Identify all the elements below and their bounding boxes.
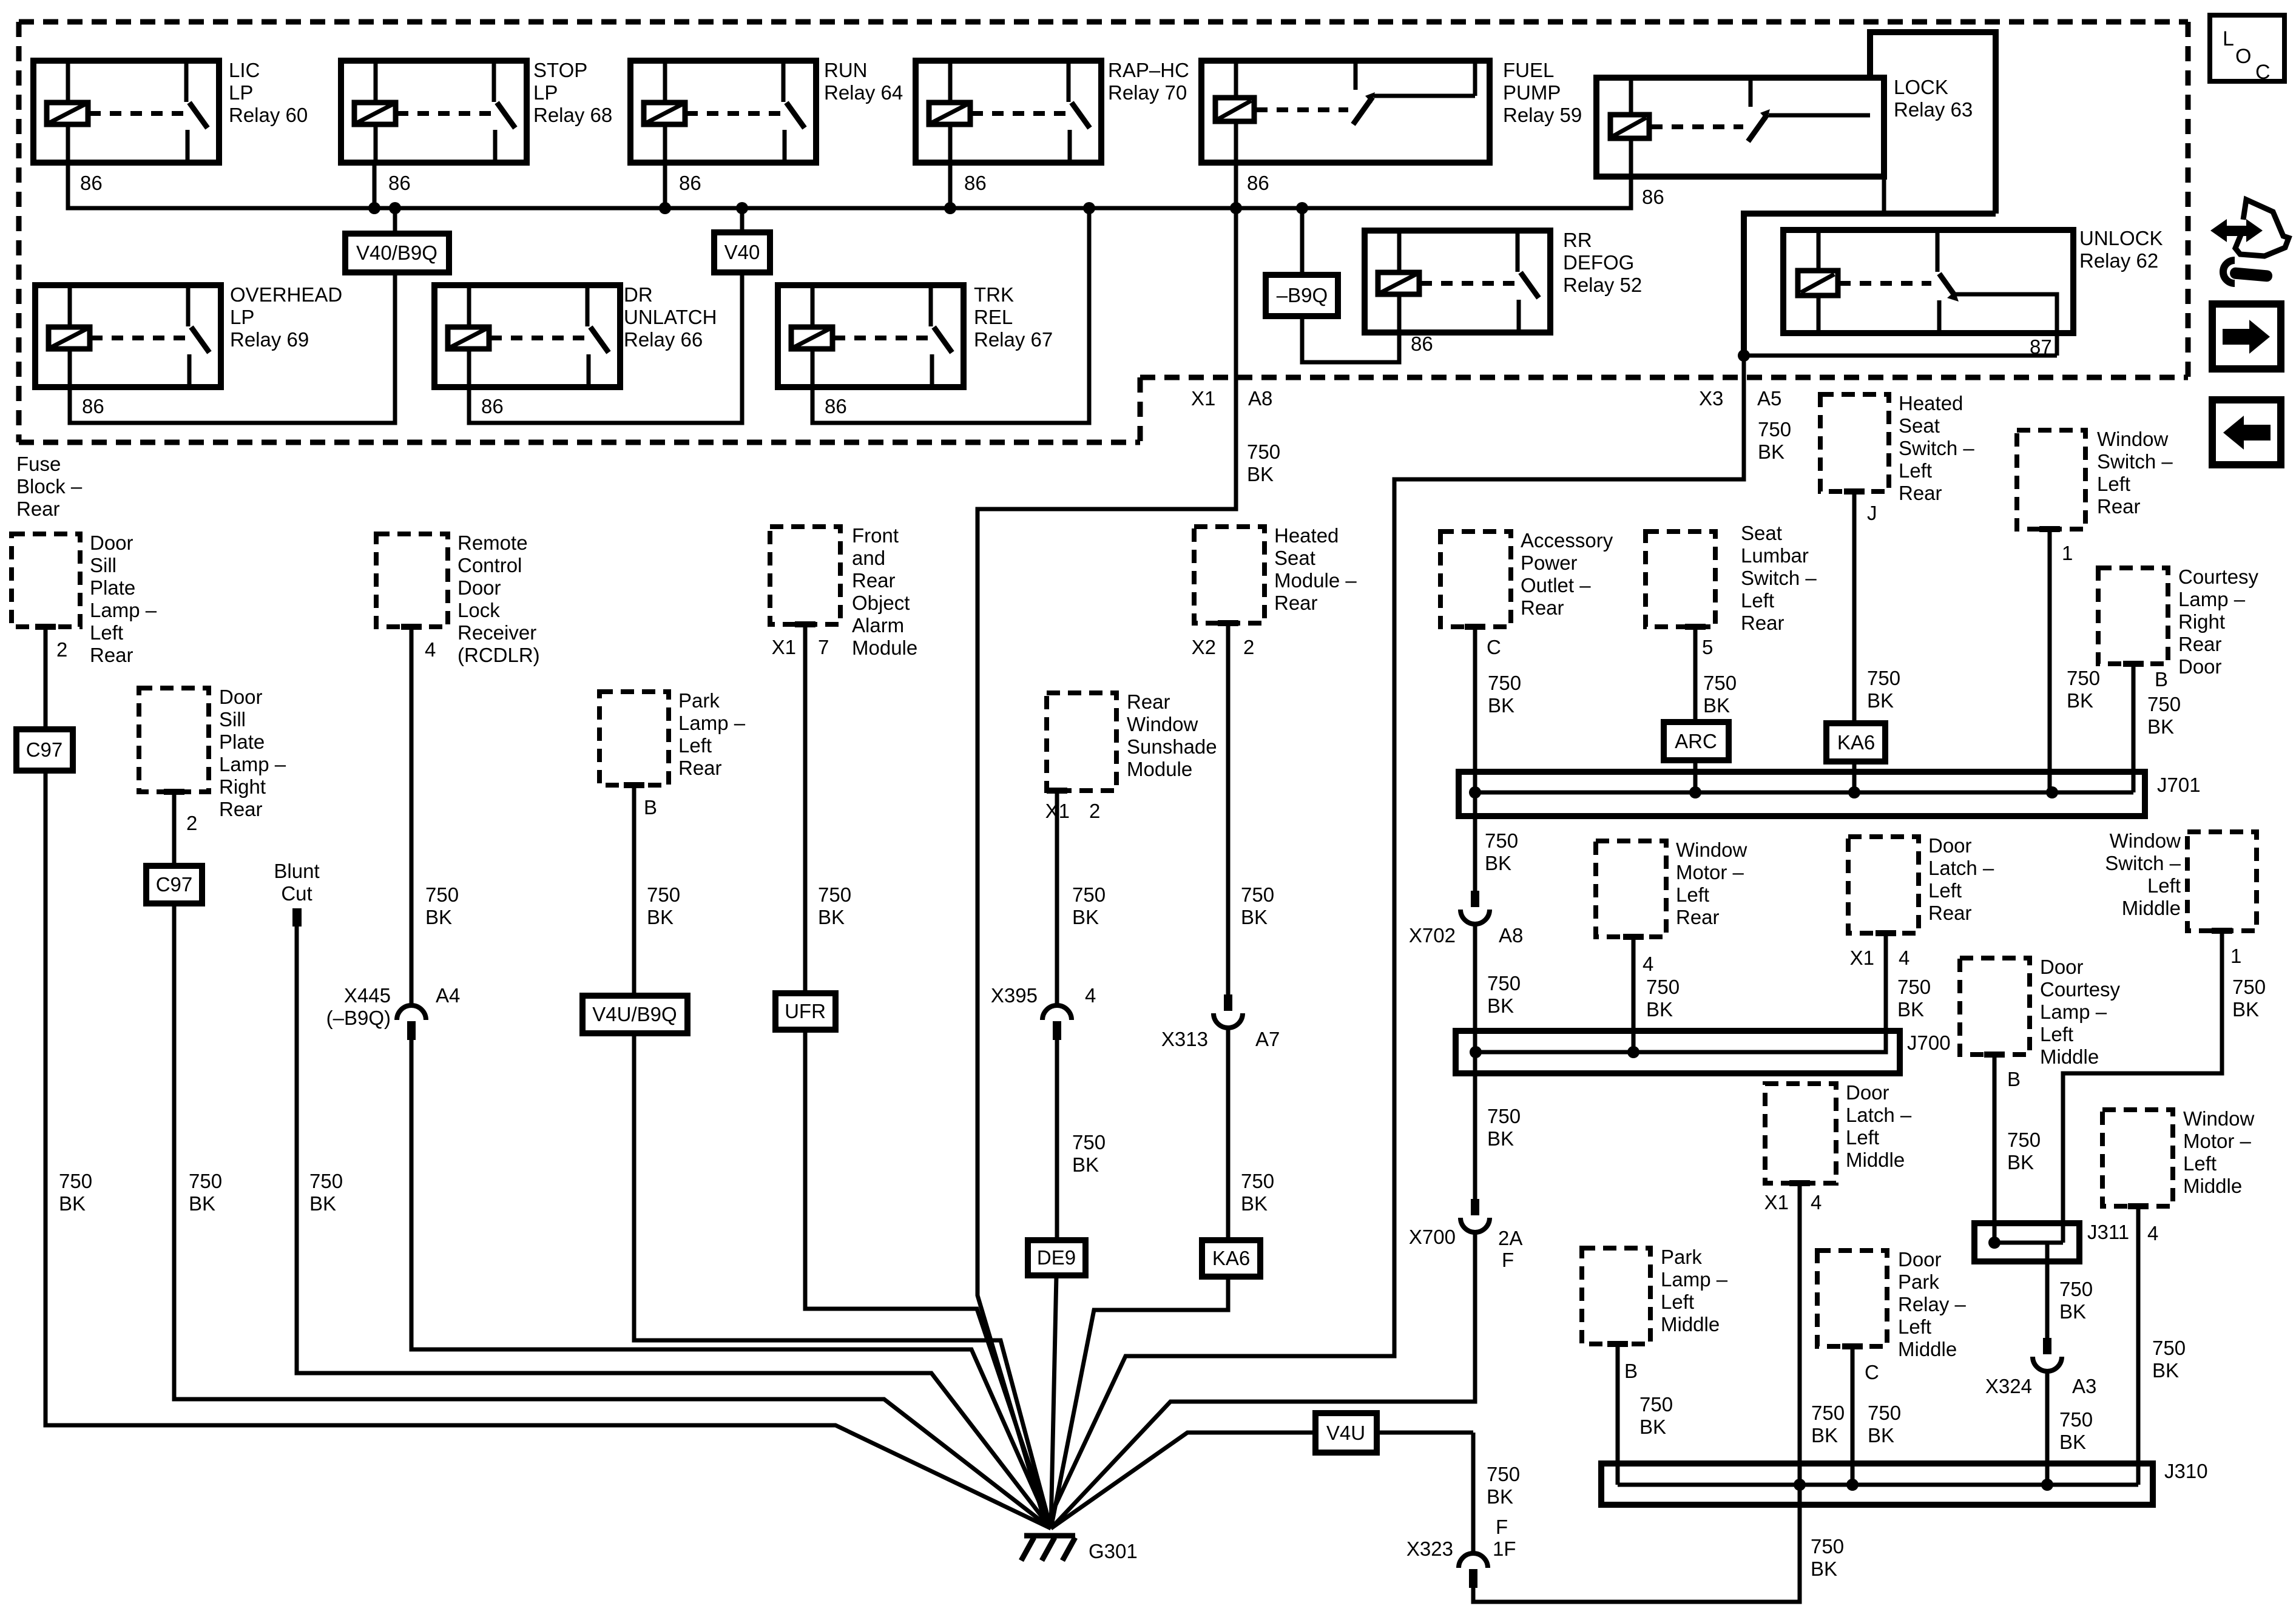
wire V4U to X323: [1471, 1433, 1476, 1554]
svg-text:Switch –: Switch –: [2097, 450, 2173, 473]
junction J310 X324: [2041, 1479, 2053, 1491]
svg-text:750: 750: [2067, 667, 2100, 689]
svg-text:OVERHEAD: OVERHEAD: [230, 283, 342, 306]
svg-text:B: B: [1624, 1360, 1638, 1382]
svg-text:V4U: V4U: [1326, 1422, 1365, 1444]
svg-text:750: 750: [2147, 693, 2181, 715]
svg-text:C: C: [1487, 636, 1501, 658]
svg-text:X1: X1: [772, 636, 796, 658]
svg-text:J310: J310: [2164, 1460, 2208, 1482]
wire park lamp LM 750 BK to J310: [1607, 1341, 1628, 1347]
svg-text:BK: BK: [818, 906, 845, 928]
svg-text:1F: 1F: [1493, 1538, 1516, 1560]
svg-text:BK: BK: [2152, 1359, 2179, 1382]
svg-text:Left: Left: [1899, 459, 1932, 482]
svg-text:750: 750: [59, 1170, 92, 1192]
svg-text:Blunt: Blunt: [274, 860, 319, 882]
svg-text:86: 86: [80, 172, 103, 194]
svg-text:C97: C97: [156, 873, 193, 896]
net KA6: [1826, 723, 1885, 761]
svg-text:Door: Door: [219, 686, 263, 708]
svg-text:750: 750: [1247, 441, 1280, 463]
svg-text:Outlet –: Outlet –: [1521, 574, 1591, 596]
svg-text:Left: Left: [2183, 1152, 2217, 1175]
svg-text:BK: BK: [425, 906, 452, 928]
junction J311 courtesy: [1988, 1237, 2001, 1249]
svg-text:F: F: [1496, 1516, 1508, 1538]
svg-text:Left: Left: [1898, 1315, 1931, 1338]
svg-text:Rear: Rear: [16, 498, 60, 520]
wire -B9Q to RR DEFOG 86: [1302, 316, 1399, 362]
svg-text:Object: Object: [852, 592, 910, 614]
svg-text:Lamp –: Lamp –: [219, 753, 286, 775]
wire X324 750 BK to J310: [2045, 1371, 2050, 1485]
net V40: [714, 232, 770, 272]
svg-text:750: 750: [1646, 976, 1680, 998]
svg-text:Control: Control: [458, 554, 522, 576]
svg-text:BK: BK: [2059, 1431, 2086, 1453]
svg-text:Window: Window: [2110, 829, 2181, 852]
svg-text:BK: BK: [1867, 689, 1894, 712]
svg-text:750: 750: [1703, 672, 1737, 694]
svg-text:86: 86: [388, 172, 411, 194]
svg-text:Switch –: Switch –: [1899, 437, 1974, 459]
svg-text:750: 750: [1488, 672, 1521, 694]
svg-text:J701: J701: [2157, 774, 2201, 796]
junction J700 accessory: [1470, 1046, 1482, 1058]
component Heated Seat Module - Rear: [1194, 527, 1264, 623]
net UFR: [775, 993, 836, 1030]
svg-text:750: 750: [189, 1170, 222, 1192]
wire UFR to G301: [805, 1030, 1051, 1528]
svg-text:4: 4: [1899, 947, 1909, 969]
svg-text:Courtesy: Courtesy: [2040, 978, 2121, 1001]
svg-text:Relay 60: Relay 60: [229, 104, 308, 126]
svg-text:X1: X1: [1191, 387, 1215, 410]
svg-text:750: 750: [1241, 1170, 1274, 1192]
svg-text:Cut: Cut: [281, 882, 312, 905]
wire V40 to DR UNLATCH 86: [469, 272, 742, 423]
svg-text:750: 750: [1487, 1105, 1521, 1127]
svg-text:Park: Park: [1898, 1271, 1939, 1293]
connector X700 2A F: [1471, 1199, 1479, 1215]
svg-text:UNLOCK: UNLOCK: [2079, 227, 2163, 249]
svg-text:STOP: STOP: [533, 59, 587, 81]
svg-text:–B9Q: –B9Q: [1277, 284, 1328, 306]
svg-text:750: 750: [2059, 1408, 2093, 1431]
svg-text:X395: X395: [991, 984, 1038, 1007]
wire hsm lower 750 BK: [1226, 1028, 1231, 1240]
svg-text:BK: BK: [647, 906, 674, 928]
svg-text:Door: Door: [1898, 1248, 1942, 1271]
svg-text:Heated: Heated: [1274, 524, 1339, 547]
wire X1-A8 750 BK: [977, 208, 1236, 1525]
component Door Latch - Left Middle: [1765, 1084, 1836, 1183]
wire V4U to G301: [1051, 1433, 1473, 1528]
svg-text:FUEL: FUEL: [1503, 59, 1554, 81]
svg-text:BK: BK: [1072, 1153, 1099, 1176]
svg-text:Front: Front: [852, 524, 899, 547]
svg-text:Left: Left: [2097, 473, 2130, 495]
svg-text:V40/B9Q: V40/B9Q: [356, 241, 437, 264]
svg-text:Middle: Middle: [2122, 897, 2181, 919]
wire DE9 to G301: [1051, 1275, 1056, 1528]
wire window motor LR 750 BK to J700: [1623, 934, 1644, 940]
svg-text:Sunshade: Sunshade: [1127, 735, 1217, 758]
svg-text:Door: Door: [90, 532, 133, 554]
wire KA6 to J701: [1852, 761, 1857, 792]
svg-text:Left: Left: [678, 734, 712, 757]
svg-text:750: 750: [425, 883, 459, 906]
svg-text:DE9: DE9: [1037, 1246, 1076, 1269]
relay RUN Relay 64: [630, 61, 816, 163]
wire bus drop to TRK REL 86: [1083, 202, 1095, 214]
svg-text:Relay 68: Relay 68: [533, 104, 612, 126]
svg-text:750: 750: [1897, 976, 1931, 998]
svg-text:BK: BK: [1646, 998, 1673, 1021]
wire heated seat switch 750 BK: [1844, 488, 1865, 495]
svg-text:A8: A8: [1248, 387, 1272, 410]
component Park Lamp - Left Middle: [1582, 1248, 1650, 1344]
svg-text:750: 750: [1241, 883, 1274, 906]
svg-text:Relay 70: Relay 70: [1108, 81, 1187, 104]
wire blunt cut 750 BK to G301: [297, 927, 1051, 1528]
svg-text:B: B: [2155, 668, 2168, 690]
svg-text:750: 750: [1811, 1402, 1845, 1424]
svg-text:LIC: LIC: [229, 59, 260, 81]
relay RAP-HC Relay 70: [916, 61, 1101, 163]
wire window motor LM 750 BK to J310: [2128, 1203, 2149, 1209]
svg-text:DR: DR: [624, 283, 653, 306]
svg-text:KA6: KA6: [1837, 731, 1875, 754]
svg-text:Plate: Plate: [219, 731, 265, 753]
wire KA6 to G301: [1051, 1277, 1228, 1528]
svg-text:J700: J700: [1907, 1031, 1951, 1054]
component Seat Lumbar Switch - Left Rear: [1646, 532, 1715, 627]
fuse block rear dashed border: [19, 22, 2188, 442]
svg-text:BK: BK: [1072, 906, 1099, 928]
svg-text:750: 750: [1758, 418, 1791, 441]
component Courtesy Lamp - Right Rear Door: [2098, 568, 2168, 664]
component Door Park Relay - Left Middle: [1817, 1251, 1887, 1346]
wire lumbar 750 BK: [1685, 624, 1706, 630]
svg-text:A4: A4: [436, 984, 460, 1007]
component Remote Control Door Lock Receiver RCDLR: [376, 534, 448, 627]
relay LIC LP Relay 60: [33, 61, 219, 163]
bus J701: [1459, 772, 2145, 816]
svg-text:Relay 63: Relay 63: [1894, 98, 1973, 121]
svg-text:BK: BK: [1487, 1127, 1514, 1150]
svg-text:Module: Module: [1127, 758, 1192, 780]
wire UNLOCK 87 output: [1955, 294, 2057, 356]
svg-text:Seat: Seat: [1899, 414, 1940, 437]
svg-text:X445: X445: [344, 984, 391, 1007]
svg-text:A3: A3: [2072, 1375, 2096, 1397]
svg-text:BK: BK: [2067, 689, 2093, 712]
svg-text:Middle: Middle: [1661, 1313, 1720, 1335]
svg-text:Window: Window: [2183, 1107, 2255, 1130]
svg-text:UNLATCH: UNLATCH: [624, 306, 717, 328]
svg-text:F: F: [1502, 1249, 1514, 1271]
svg-text:KA6: KA6: [1212, 1247, 1250, 1269]
wire RAP-HC 86 pin: [948, 163, 953, 208]
svg-text:750: 750: [1639, 1393, 1673, 1416]
ground G301: [1021, 1536, 1075, 1561]
svg-text:X324: X324: [1985, 1375, 2032, 1397]
svg-text:86: 86: [964, 172, 987, 194]
svg-text:Sill: Sill: [90, 554, 116, 576]
svg-text:LP: LP: [230, 306, 254, 328]
svg-text:REL: REL: [974, 306, 1013, 328]
svg-text:A5: A5: [1757, 387, 1781, 410]
svg-text:2A: 2A: [1498, 1227, 1522, 1249]
svg-text:Rear: Rear: [1741, 612, 1784, 634]
svg-text:X2: X2: [1192, 636, 1216, 658]
svg-text:750: 750: [1072, 1131, 1106, 1153]
wire window switch LR 750 BK: [2039, 526, 2060, 532]
svg-text:BK: BK: [59, 1192, 86, 1215]
svg-text:Door: Door: [2040, 956, 2084, 978]
svg-text:Rear: Rear: [1521, 596, 1564, 619]
svg-text:5: 5: [1702, 636, 1713, 658]
svg-text:Left: Left: [2040, 1023, 2073, 1045]
svg-text:2: 2: [1089, 800, 1100, 822]
svg-text:Middle: Middle: [1898, 1338, 1957, 1360]
svg-text:BK: BK: [1868, 1424, 1894, 1447]
svg-text:Park: Park: [678, 689, 720, 712]
wire park lamp LR 750 BK: [624, 782, 644, 788]
wire sunshade 750 BK upper: [1047, 788, 1067, 794]
svg-text:X700: X700: [1409, 1226, 1456, 1248]
svg-text:BK: BK: [2059, 1300, 2086, 1323]
svg-text:Relay 59: Relay 59: [1503, 104, 1582, 126]
junction X3 wire: [1738, 349, 1750, 362]
svg-text:Rear: Rear: [678, 757, 722, 779]
component Park Lamp - Left Rear: [599, 692, 669, 785]
svg-text:B: B: [2007, 1068, 2021, 1090]
svg-text:Motor –: Motor –: [1676, 861, 1744, 883]
svg-text:Power: Power: [1521, 552, 1578, 574]
svg-text:BK: BK: [1639, 1416, 1666, 1438]
svg-text:4: 4: [1811, 1191, 1822, 1214]
svg-text:750: 750: [1867, 667, 1900, 689]
svg-text:Courtesy: Courtesy: [2178, 565, 2259, 588]
svg-text:Left: Left: [1661, 1291, 1694, 1313]
svg-text:Lamp –: Lamp –: [90, 599, 157, 621]
svg-text:V4U/B9Q: V4U/B9Q: [592, 1003, 677, 1025]
svg-text:BK: BK: [1247, 463, 1274, 485]
svg-text:Rear: Rear: [1899, 482, 1942, 504]
component Door Sill Plate Lamp - Left Rear: [12, 534, 80, 627]
wire heated seat module 750 BK: [1218, 620, 1238, 626]
svg-text:BK: BK: [1758, 441, 1784, 463]
wire X700 750 BK to G301: [1051, 1232, 1475, 1528]
svg-text:Middle: Middle: [1846, 1149, 1905, 1171]
svg-text:1: 1: [2230, 945, 2241, 967]
svg-text:C: C: [2255, 61, 2271, 84]
wire -B9Q drop: [1296, 202, 1308, 214]
svg-text:Lumbar: Lumbar: [1741, 544, 1809, 567]
junction J310 door park relay: [1846, 1479, 1859, 1491]
wire 87 bus to X3-A5: [1744, 354, 2057, 358]
svg-text:LP: LP: [533, 81, 558, 104]
svg-text:J311: J311: [2087, 1221, 2129, 1243]
svg-text:BK: BK: [1811, 1424, 1838, 1447]
relay RR DEFOG Relay 52: [1365, 231, 1550, 333]
svg-text:C: C: [1865, 1361, 1879, 1383]
component Window Switch - Left Middle: [2187, 832, 2257, 931]
net KA6 lower: [1202, 1240, 1260, 1277]
svg-text:1: 1: [2062, 542, 2073, 564]
legend back arrow box: [2212, 400, 2281, 465]
connector X702 A8: [1471, 891, 1479, 907]
net V4U: [1315, 1413, 1377, 1453]
wire window switch LM 750 BK to J311: [2212, 928, 2232, 934]
component Window Motor - Left Middle: [2102, 1110, 2173, 1206]
svg-text:Motor –: Motor –: [2183, 1130, 2252, 1152]
svg-text:A7: A7: [1255, 1028, 1280, 1050]
svg-text:750: 750: [2232, 976, 2266, 998]
svg-text:RR: RR: [1563, 229, 1592, 251]
svg-text:750: 750: [647, 883, 680, 906]
junction J700 window motor: [1627, 1046, 1639, 1058]
bus J311: [1974, 1223, 2079, 1261]
wire door latch LR 750 BK to J700: [1876, 930, 1896, 936]
svg-text:4: 4: [425, 638, 436, 661]
svg-text:86: 86: [82, 395, 104, 417]
svg-text:BK: BK: [2147, 715, 2174, 738]
relay UNLOCK Relay 62: [1783, 230, 2073, 333]
svg-text:Module –: Module –: [1274, 569, 1357, 592]
svg-text:Window: Window: [1676, 839, 1747, 861]
svg-text:2: 2: [1243, 636, 1254, 658]
wire J311 to X324: [2045, 1243, 2050, 1338]
connector X324 A3: [2043, 1338, 2051, 1354]
svg-text:Switch –: Switch –: [1741, 567, 1817, 589]
junction J701 window switch: [2046, 786, 2058, 798]
svg-text:B: B: [644, 796, 657, 819]
wire V40 drop: [736, 202, 748, 214]
svg-text:Seat: Seat: [1741, 522, 1782, 544]
wire STOP 86 pin: [373, 163, 377, 208]
wire 86 bus: [68, 163, 1631, 208]
wire accessory 750 BK: [1465, 624, 1485, 630]
svg-text:X313: X313: [1161, 1028, 1208, 1050]
wire door sill RR to C97: [164, 789, 184, 795]
svg-text:Lamp –: Lamp –: [2040, 1001, 2107, 1023]
wire FUEL PUMP 86 pin: [1234, 163, 1238, 208]
svg-text:Door: Door: [458, 576, 501, 599]
svg-text:Relay 66: Relay 66: [624, 328, 703, 351]
svg-text:X1: X1: [1850, 947, 1874, 969]
wire door sill LR to C97: [35, 624, 56, 630]
svg-text:L: L: [2223, 27, 2234, 50]
svg-text:BK: BK: [1487, 1485, 1513, 1508]
svg-text:86: 86: [1247, 172, 1269, 194]
svg-text:UFR: UFR: [785, 1000, 826, 1022]
svg-text:BK: BK: [1485, 852, 1511, 874]
svg-text:750: 750: [818, 883, 851, 906]
svg-text:Module: Module: [852, 636, 917, 659]
svg-text:BK: BK: [1241, 906, 1268, 928]
svg-text:Heated: Heated: [1899, 392, 1963, 414]
svg-text:750: 750: [309, 1170, 343, 1192]
svg-text:750: 750: [2007, 1129, 2041, 1151]
net V4U/B9Q: [582, 996, 687, 1033]
junction J310 door latch: [1794, 1479, 1806, 1491]
svg-text:Lamp –: Lamp –: [2178, 588, 2246, 610]
svg-text:Relay 64: Relay 64: [824, 81, 903, 104]
svg-text:Lamp –: Lamp –: [678, 712, 746, 734]
wire door latch LM to J310 and X323 line: [1789, 1180, 1810, 1186]
wire LOCK relay 87 loop: [1744, 32, 1996, 353]
relay OVERHEAD LP Relay 69: [35, 285, 221, 387]
wire V4U/B9Q to G301: [634, 1033, 1051, 1528]
svg-text:BK: BK: [1241, 1192, 1268, 1215]
svg-text:X323: X323: [1406, 1538, 1453, 1560]
component Window Motor - Left Rear: [1596, 841, 1666, 937]
svg-text:BK: BK: [309, 1192, 336, 1215]
svg-text:Left: Left: [1741, 589, 1774, 612]
svg-text:7: 7: [818, 636, 829, 658]
net -B9Q: [1266, 275, 1338, 316]
svg-text:X3: X3: [1699, 387, 1723, 410]
svg-text:BK: BK: [1811, 1558, 1837, 1580]
svg-text:750: 750: [1487, 1463, 1520, 1485]
svg-text:Door: Door: [1928, 834, 1972, 857]
connector X313 A7: [1224, 994, 1232, 1011]
component Door Latch - Left Rear: [1848, 837, 1919, 933]
net V40/B9Q: [345, 234, 449, 272]
svg-text:C97: C97: [26, 738, 63, 761]
svg-text:X1: X1: [1764, 1191, 1789, 1214]
svg-text:Middle: Middle: [2040, 1045, 2099, 1068]
net DE9: [1028, 1240, 1086, 1275]
junction J701 ARC: [1689, 786, 1701, 798]
component Door Sill Plate Lamp - Right Rear: [139, 688, 209, 792]
svg-text:750: 750: [1868, 1402, 1901, 1424]
relay DR UNLATCH Relay 66: [434, 285, 620, 387]
wire sunshade 750 BK lower: [1055, 1040, 1059, 1240]
relay STOP LP Relay 68: [341, 61, 527, 163]
component Front and Rear Object Alarm Module: [770, 527, 840, 624]
svg-text:Block –: Block –: [16, 475, 83, 498]
svg-text:4: 4: [1643, 953, 1653, 975]
svg-text:Left: Left: [1928, 879, 1962, 902]
svg-text:Lamp –: Lamp –: [1661, 1268, 1728, 1291]
svg-text:86: 86: [1411, 333, 1433, 355]
svg-text:J: J: [1867, 502, 1877, 524]
svg-text:Relay 52: Relay 52: [1563, 274, 1642, 296]
svg-text:Middle: Middle: [2183, 1175, 2242, 1197]
svg-text:Alarm: Alarm: [852, 614, 904, 636]
svg-text:G301: G301: [1089, 1540, 1138, 1562]
svg-text:86: 86: [679, 172, 701, 194]
svg-text:Left: Left: [1846, 1126, 1879, 1149]
connector X323 F 1F: [1459, 1553, 1488, 1568]
wire C97b 750 BK to G301: [174, 903, 1051, 1528]
wire RUN 86 pin: [663, 163, 667, 208]
wire rcdlr 750 BK: [401, 624, 422, 630]
junction J701 KA6: [1848, 786, 1860, 798]
bus J310: [1601, 1463, 2153, 1505]
svg-text:750: 750: [1811, 1535, 1844, 1558]
legend body repair icon: [2210, 200, 2289, 283]
svg-text:750: 750: [1485, 829, 1518, 852]
svg-text:(RCDLR): (RCDLR): [458, 644, 540, 666]
connector X395 pin 4: [1042, 1005, 1072, 1020]
connector C97 right rear: [146, 866, 202, 903]
